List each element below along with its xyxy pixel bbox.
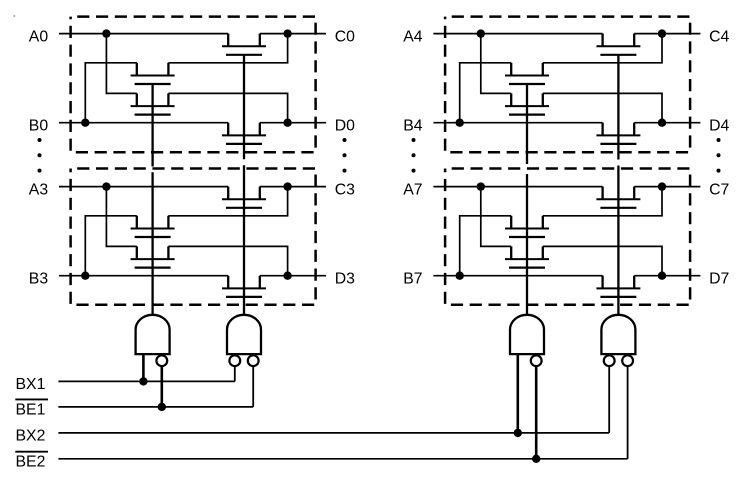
svg-text:B3: B3 (29, 270, 49, 287)
wire U3 input b to BE2 (535, 366, 538, 459)
node BE1-U1 junction (158, 403, 166, 411)
input bubble U4 (pass enable, port 2)b (622, 355, 633, 366)
wire C4 to Q11 (543, 34, 662, 63)
svg-text:A3: A3 (29, 181, 49, 198)
wire U3 input a to BX2 (516, 354, 519, 433)
dashed box switch cell A4/B4-C4/D4 (445, 17, 690, 153)
wire A4 input line (433, 33, 602, 35)
wire C7 output line (634, 186, 700, 188)
transistor Q1 (A0-C0 pass) (222, 34, 266, 55)
ellipsis dots right C/D column (717, 138, 721, 173)
wire B0 to Q3 (85, 63, 137, 123)
wire D0 output line (260, 122, 326, 124)
transistor Q6 (B3-D3 pass) (222, 276, 266, 297)
node BX1-U1 junction (139, 377, 147, 385)
wire B7 input line (433, 275, 602, 277)
node A4 junction (477, 29, 485, 37)
dashed box switch cell A0/B0-C0/D0 (71, 17, 316, 153)
svg-text:B0: B0 (29, 117, 49, 134)
wire C4 output line (634, 33, 700, 35)
node C0 junction (283, 29, 291, 37)
transistor Q7 (B3-C3 exchange) (131, 216, 175, 237)
transistor Q4 (A0-D0 exchange) (131, 93, 175, 114)
dashed box switch cell A7/B7-C7/D7 (445, 169, 690, 305)
wire BX1 line (58, 380, 234, 382)
ellipsis dots right A/B column (412, 138, 416, 173)
transistor Q9 (A4-C4 pass) (596, 34, 640, 55)
wire exchange gate net (U1 output to Q3,Q4,Q7,Q8 gates) (151, 84, 153, 315)
transistor Q16 (A7-D7 exchange) (505, 246, 549, 267)
wire U1 input b to BE1 (161, 366, 164, 407)
transistor Q15 (B7-C7 exchange) (505, 216, 549, 237)
transistor Q12 (A4-D4 exchange) (505, 93, 549, 114)
svg-text:BE1: BE1 (16, 402, 46, 419)
wire U2 input b to BE1 (252, 366, 254, 407)
wire B3 to Q7 (85, 216, 137, 276)
wire B3 input line (59, 275, 228, 277)
wire C7 to Q15 (543, 187, 662, 216)
node B0 junction (81, 119, 89, 127)
wire BE2 line (58, 458, 627, 460)
svg-text:A7: A7 (403, 181, 422, 198)
transistor Q8 (A3-D3 exchange) (131, 246, 175, 267)
wire U2 input a to BX1 (234, 366, 236, 381)
svg-text:A4: A4 (403, 28, 423, 45)
node D3 junction (283, 272, 291, 280)
input bubble U4 (pass enable, port 2)a (604, 355, 615, 366)
wire A3 to Q8 (106, 187, 136, 247)
transistor Q5 (A3-C3 pass) (222, 187, 266, 208)
svg-text:B7: B7 (403, 270, 422, 287)
wire BE1 line (58, 406, 253, 408)
transistor Q11 (B4-C4 exchange) (505, 63, 549, 84)
wire A7 to Q16 (481, 187, 511, 247)
wire Q4 to D0 (168, 93, 287, 122)
svg-text:BX1: BX1 (16, 376, 46, 393)
node B7 junction (456, 272, 464, 280)
wire C3 output line (260, 186, 326, 188)
wire D4 output line (634, 122, 700, 124)
node D4 junction (658, 119, 666, 127)
wire C0 to Q3 (168, 34, 287, 63)
stray mark (14, 15, 16, 17)
wire BX2 line (58, 432, 609, 434)
AND gate U3 (exchange enable, port 2) (510, 315, 544, 354)
AND gate U4 (pass enable, port 2) (601, 315, 635, 354)
wire B4 input line (433, 122, 602, 124)
svg-text:D7: D7 (709, 270, 729, 287)
wire Q8 to D3 (168, 246, 287, 275)
node C7 junction (658, 182, 666, 190)
wire U4 input a to BX2 (608, 366, 610, 433)
wire B7 to Q15 (460, 216, 512, 276)
node C3 junction (283, 182, 291, 190)
transistor Q10 (B4-D4 pass) (596, 123, 640, 144)
node B3 junction (81, 272, 89, 280)
wire pass gate net (U2 output to Q1,Q2,Q5,Q6 gates) (243, 55, 245, 315)
wire A0 to Q4 (106, 34, 136, 94)
node A0 junction (102, 29, 110, 37)
wire B4 to Q11 (460, 63, 512, 123)
svg-text:A0: A0 (29, 28, 49, 45)
overbar BE1 (15, 398, 48, 400)
wire A4 to Q12 (481, 34, 511, 94)
AND gate U1 (exchange enable, port 1) (136, 315, 170, 354)
input bubble U3 (exchange enable, port 2)b (531, 355, 542, 366)
node C4 junction (658, 29, 666, 37)
node BE2-U3 junction (532, 455, 540, 463)
wire U4 input b to BE2 (627, 366, 629, 459)
input bubble U2 (pass enable, port 1)b (248, 355, 259, 366)
svg-text:C7: C7 (709, 181, 729, 198)
svg-text:BX2: BX2 (16, 428, 46, 445)
input bubble U1 (exchange enable, port 1)b (156, 355, 167, 366)
node D7 junction (658, 272, 666, 280)
ellipsis dots left C/D column (343, 138, 347, 173)
svg-text:D4: D4 (709, 117, 729, 134)
transistor Q14 (B7-D7 pass) (596, 276, 640, 297)
wire exchange gate net (U3 output to Q11,Q12,Q15,Q16 gates) (526, 84, 528, 315)
wire A7 input line (433, 186, 602, 188)
node B4 junction (456, 119, 464, 127)
node D0 junction (283, 119, 291, 127)
wire pass gate net (U4 output to Q9,Q10,Q13,Q14 gates) (617, 55, 619, 315)
svg-text:B4: B4 (403, 117, 423, 134)
node A3 junction (102, 182, 110, 190)
node BX2-U3 junction (514, 429, 522, 437)
svg-text:BE2: BE2 (16, 454, 46, 471)
ellipsis dots left A/B column (38, 138, 42, 173)
wire Q16 to D7 (543, 246, 662, 275)
wire B0 input line (59, 122, 228, 124)
AND gate U2 (pass enable, port 1) (227, 315, 261, 354)
wire U1 input a to BX1 (142, 354, 145, 381)
overbar BE2 (15, 451, 48, 453)
svg-text:C3: C3 (335, 181, 355, 198)
wire D7 output line (634, 275, 700, 277)
wire D3 output line (260, 275, 326, 277)
svg-text:C4: C4 (709, 28, 729, 45)
wire A3 input line (59, 186, 228, 188)
svg-text:D3: D3 (335, 270, 355, 287)
input bubble U2 (pass enable, port 1)a (229, 355, 240, 366)
node A7 junction (477, 182, 485, 190)
svg-text:C0: C0 (335, 28, 355, 45)
wire Q12 to D4 (543, 93, 662, 122)
dashed box switch cell A3/B3-C3/D3 (71, 169, 316, 305)
wire C0 output line (260, 33, 326, 35)
transistor Q2 (B0-D0 pass) (222, 123, 266, 144)
transistor Q13 (A7-C7 pass) (596, 187, 640, 208)
wire C3 to Q7 (168, 187, 287, 216)
svg-text:D0: D0 (335, 117, 355, 134)
wire A0 input line (59, 33, 228, 35)
transistor Q3 (B0-C0 exchange) (131, 63, 175, 84)
